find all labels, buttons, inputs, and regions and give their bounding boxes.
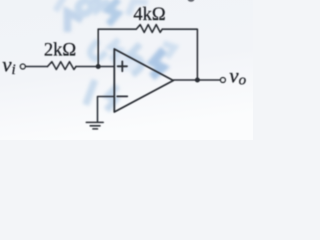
ground bbox=[86, 122, 103, 128]
resistor R2 4kOhm zigzag bbox=[136, 25, 162, 33]
op-amp - input marking bbox=[117, 95, 127, 97]
wire: - input to ground drop bbox=[98, 97, 115, 122]
wire: top rail right segment and down to output node bbox=[162, 29, 197, 80]
op-amp + input marking bbox=[118, 61, 127, 71]
stray dark speck top edge bbox=[188, 0, 195, 2]
op-amp U1 triangle bbox=[114, 49, 173, 112]
node A junction dot bbox=[96, 64, 101, 69]
svg-text:2kΩ: 2kΩ bbox=[44, 40, 76, 60]
wire: op-amp output to terminal bbox=[173, 79, 220, 81]
input terminal circle bbox=[20, 64, 25, 69]
circuit ink bbox=[20, 25, 225, 129]
svg-text:4kΩ: 4kΩ bbox=[133, 5, 165, 25]
resistor R1 2kOhm zigzag bbox=[48, 62, 77, 70]
output node junction dot bbox=[195, 78, 200, 83]
wire: node A up to feedback top rail bbox=[97, 29, 99, 66]
band A top bbox=[55, 0, 65, 8]
watermark band (light blue logo marks) bbox=[55, 0, 176, 108]
band B center bbox=[112, 51, 142, 71]
wire: input terminal to 2k resistor bbox=[25, 66, 47, 68]
wire: top rail left segment bbox=[98, 28, 136, 30]
output terminal circle bbox=[221, 78, 226, 83]
wire: 2k resistor to op-amp + input (through node A) bbox=[76, 66, 114, 68]
